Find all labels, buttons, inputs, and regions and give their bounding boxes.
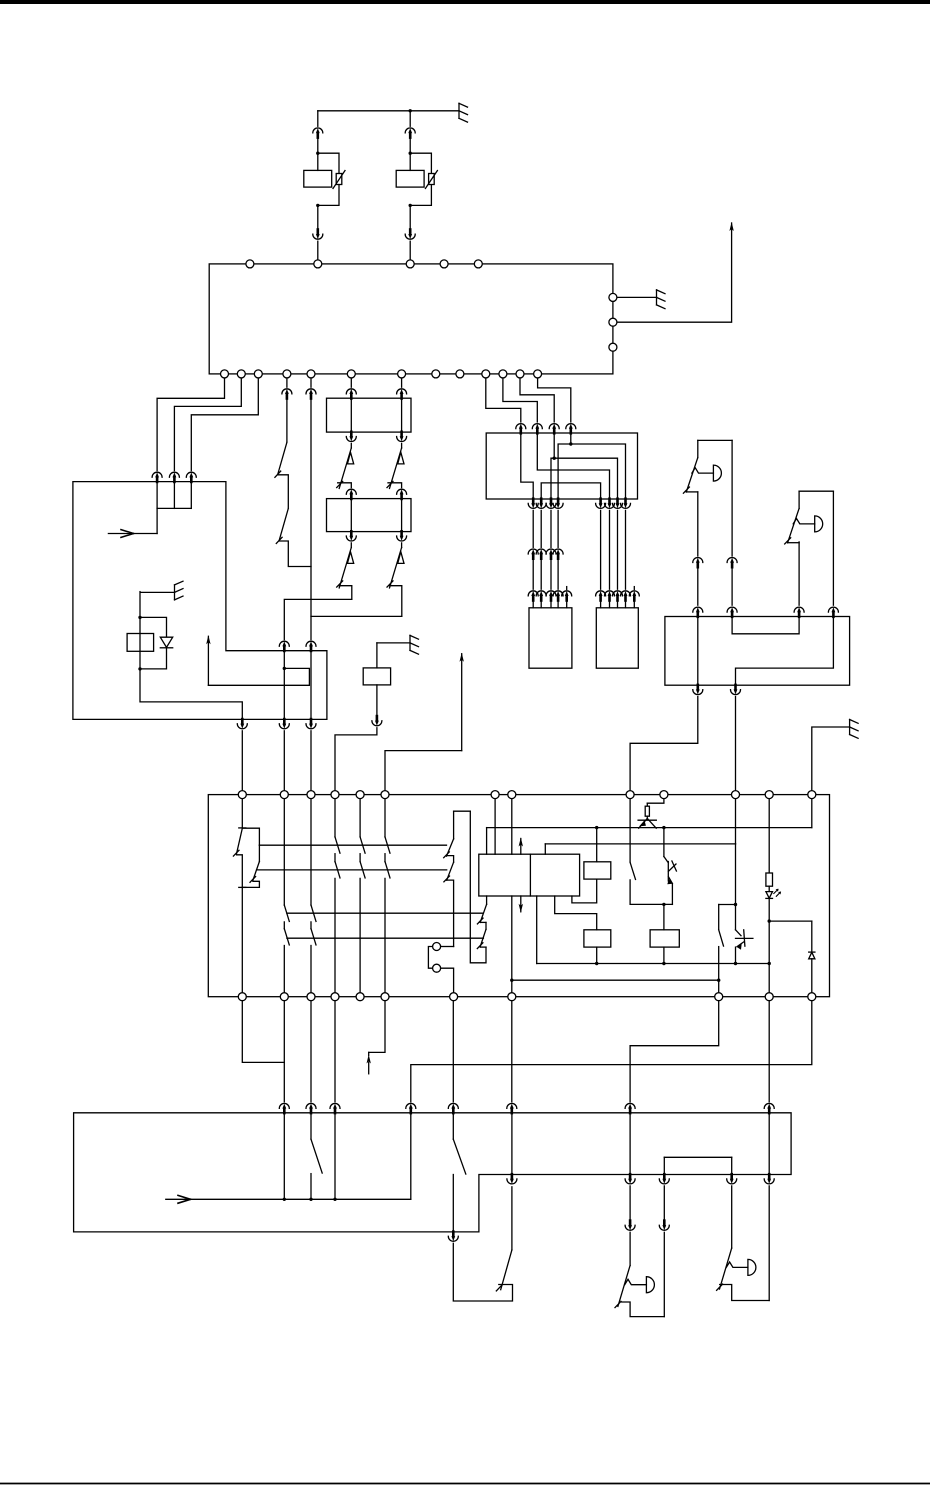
- wire w311 top: [310, 374, 312, 387]
- page top bar: [0, 0, 930, 4]
- wire f1: [486, 374, 521, 422]
- wire b3: [310, 997, 312, 1102]
- node bus2: [309, 1198, 312, 1201]
- wire M2 top lead: [409, 111, 411, 127]
- terminal box4-top x495.1: [491, 791, 499, 799]
- connector box5 in3: [330, 1103, 340, 1113]
- PCB driver board U2: [208, 795, 829, 997]
- wire boxA to rail963: [536, 896, 538, 964]
- arrow feed out: [731, 223, 733, 230]
- terminal box1-right y322.2: [609, 318, 617, 326]
- wire K4 step b: [481, 946, 486, 948]
- connector box5 out0: [448, 1232, 458, 1242]
- connector boxF in4: [566, 424, 576, 434]
- wire harnessL x558.1 a: [557, 510, 559, 547]
- ground G2: [657, 290, 666, 309]
- terminal CN-A pin1: [433, 943, 441, 951]
- wire harnessL x541.2 c: [540, 600, 542, 608]
- wire 664 mid: [663, 1186, 665, 1221]
- wire K1 to box4: [241, 731, 243, 791]
- wire col335.0 upper: [334, 795, 336, 837]
- wire col284.3 upper: [283, 795, 285, 906]
- terminal box1-bottom x520.0: [516, 370, 524, 378]
- node boxD top: [662, 903, 665, 906]
- wire col385.0 mid: [384, 854, 386, 862]
- contact K3 tick b: [444, 876, 450, 882]
- switch S1 blade: [278, 442, 287, 474]
- wire harnessL x551.0 b: [550, 558, 552, 589]
- switch S6 blade: [453, 1139, 466, 1174]
- wire col284.3 mid: [283, 922, 285, 929]
- wire Q1 resistor lead: [646, 803, 648, 806]
- terminal box1-top x317.8: [314, 260, 322, 268]
- wire col311.0 upper: [310, 795, 312, 906]
- wire sw-chain top: [286, 374, 288, 387]
- wire F pin4 route: [570, 433, 572, 444]
- wire U1 right leg: [731, 440, 733, 556]
- node w284 tap: [283, 667, 286, 670]
- connector w311 out: [306, 719, 316, 729]
- switch S2 blade: [279, 509, 288, 541]
- connector left-box pin3: [186, 472, 196, 482]
- connector SB1 in x541.2: [536, 591, 546, 601]
- wire box5 bus: [166, 1198, 411, 1200]
- arrow input: [121, 530, 134, 538]
- wire LED chain lower: [768, 921, 770, 997]
- relay coil C: [584, 930, 611, 947]
- wire bridge left: [663, 1157, 665, 1174]
- wire col335.0 lower: [334, 878, 336, 996]
- node M1 bottom junction: [316, 204, 319, 207]
- wire TH1 contact: [338, 483, 352, 488]
- connector U1 left: [693, 558, 703, 568]
- contact col284.3 blade b: [284, 929, 289, 945]
- node rail963 end: [768, 962, 771, 965]
- wire bus drop3: [334, 1113, 336, 1200]
- wire box3 pass R: [401, 499, 403, 532]
- resistor R2: [766, 873, 773, 886]
- switch U2 tick: [785, 538, 791, 544]
- connector box3 out R: [397, 531, 407, 541]
- wire b1 jog: [242, 997, 284, 1063]
- wire w311 lower: [310, 651, 312, 720]
- wire h2 top: [401, 374, 403, 387]
- wire L2 bottom: [720, 1285, 770, 1301]
- terminal box4-bottom x811.8: [808, 993, 816, 1001]
- wire Q1 base lead: [646, 816, 648, 818]
- switch S7 tick: [496, 1285, 502, 1291]
- connector SB1 stub: [566, 587, 568, 590]
- wire Q1 bent lead: [647, 799, 664, 804]
- wire harnessL x558.1 c: [557, 600, 559, 608]
- wire sw6 link: [452, 1175, 454, 1232]
- wire 769 tail: [768, 1186, 770, 1301]
- terminal box4-top x630.1: [626, 791, 634, 799]
- terminal box1-bottom x351.3: [347, 370, 355, 378]
- connector F out-right x625.5: [621, 499, 631, 509]
- connector K1 out: [237, 719, 247, 729]
- connector boxW in2: [727, 607, 737, 617]
- terminal box4-top x735.5: [732, 791, 740, 799]
- transistor Q1 base bar: [638, 819, 656, 821]
- wire rail963: [537, 963, 770, 965]
- wire 630 mid: [629, 1186, 631, 1221]
- wire box3 pass L: [350, 499, 352, 532]
- lamp U1: [713, 465, 721, 481]
- connector SB2 in x625.5: [621, 591, 631, 601]
- wire U2 top edge: [799, 490, 833, 492]
- wire col284.3 lower: [283, 946, 285, 997]
- connector boxW in4: [828, 607, 838, 617]
- node F pin3: [553, 457, 556, 460]
- node LED tap: [768, 919, 771, 922]
- connector SB2 in x617.5: [613, 591, 623, 601]
- wire SB1 stub lead: [566, 600, 568, 608]
- wire rail980 feed: [511, 896, 513, 997]
- connector box2 in R: [397, 389, 407, 399]
- connector U1 right: [727, 558, 737, 568]
- wire U1 left tail: [697, 567, 699, 605]
- wire LED out: [768, 898, 770, 921]
- switch U1 plunger: [692, 468, 714, 473]
- switch L2 plunger: [726, 1262, 748, 1267]
- switch S7 blade: [501, 1250, 512, 1290]
- wire w284 to box4: [283, 731, 285, 791]
- contact col360.1 blade b: [360, 862, 365, 878]
- contact K3 blade b: [447, 862, 454, 880]
- wire boxA to boxC: [555, 896, 597, 930]
- connector SB1 stub pin: [562, 591, 572, 601]
- wire U1 left stem: [697, 440, 699, 457]
- node M2 bottom junction: [409, 204, 412, 207]
- terminal box1-bottom x311.0: [307, 370, 315, 378]
- thermal switch TH2 sensor: [398, 452, 404, 464]
- node rail963 boxD: [662, 962, 665, 965]
- connector F out-left x541.2: [536, 499, 546, 509]
- contact RY1 blade a: [236, 828, 242, 854]
- wire h1 top: [350, 374, 352, 387]
- wire W bridge12: [732, 617, 799, 634]
- wire U1 left lower: [697, 492, 699, 556]
- connector SB2 in x609.5: [605, 591, 615, 601]
- terminal box1-top x444.1: [440, 260, 448, 268]
- wire U2 right leg: [832, 491, 834, 605]
- contact RY1 tick a: [233, 850, 239, 856]
- wire inside pin2: [173, 482, 175, 509]
- switch S3 blade: [630, 862, 635, 879]
- connector w311 mid: [306, 641, 316, 651]
- page bottom rule: [0, 1483, 930, 1485]
- connector box5 in8: [406, 1103, 416, 1113]
- connector box5 in4: [448, 1103, 458, 1113]
- diode D1: [160, 637, 172, 647]
- connector boxW in3: [794, 607, 804, 617]
- wire T3 feed: [735, 844, 737, 930]
- wire harnessL x533.2 c: [532, 600, 534, 608]
- wire diode branch: [140, 617, 167, 637]
- connector W out2: [731, 685, 741, 695]
- operation unit box5: [74, 1113, 792, 1232]
- connector F out-left x558.1: [553, 499, 563, 509]
- connector SB2 stub: [633, 587, 635, 590]
- node Q1 collector: [662, 826, 665, 829]
- ground G5: [850, 720, 859, 739]
- wire col311.0 mid: [310, 922, 312, 929]
- connector M2 upper: [405, 128, 415, 138]
- LED D2: [766, 892, 773, 899]
- wire input line: [108, 533, 157, 535]
- switch S4 blade: [719, 930, 724, 946]
- wire harnessL x558.1 b: [557, 558, 559, 589]
- wire loop right: [470, 811, 486, 963]
- relay coil D: [650, 930, 679, 947]
- wire harnessL x533.2 b: [532, 558, 534, 589]
- wire col360.1 upper: [359, 795, 361, 837]
- terminal box4-top x335.0: [331, 791, 339, 799]
- node rail963 T3: [734, 962, 737, 965]
- wire S4 stem: [718, 905, 720, 930]
- wire thermal-right link: [311, 616, 402, 639]
- terminal box4-bottom x284.3: [280, 993, 288, 1001]
- wire b5 tail: [368, 1063, 370, 1074]
- connector SB1 in x551.0: [546, 591, 556, 601]
- connector box2 in L: [346, 389, 356, 399]
- arrow A1: [207, 636, 209, 685]
- thermal switch TH4 blade: [390, 548, 402, 588]
- wire S2 contact: [279, 541, 311, 567]
- wire box2 pass R: [401, 398, 403, 432]
- terminal box1-bottom x401.6: [398, 370, 406, 378]
- wire col385.0 upper: [384, 795, 386, 837]
- thermal switch TH3 blade: [339, 548, 351, 588]
- wire A2 link: [385, 751, 462, 791]
- connector box3 in L: [346, 489, 356, 499]
- motor box SB2: [596, 608, 638, 668]
- wire M1 to coil: [317, 137, 319, 170]
- wire thermal-left link: [284, 599, 352, 639]
- terminal box1-bottom x537.6: [534, 370, 542, 378]
- transistor Q1 collector: [647, 818, 656, 828]
- arrow b5: [368, 1052, 370, 1055]
- switch U1 tick: [683, 487, 689, 493]
- connector harnessL mid x533.2: [528, 549, 538, 559]
- wire U1 top edge: [698, 439, 732, 441]
- connector SB1 in x533.2: [528, 591, 538, 601]
- node rail828 boxB: [595, 826, 598, 829]
- connector left-box pin2: [169, 472, 179, 482]
- wire S1 contact: [278, 475, 289, 508]
- wire f3: [520, 374, 554, 422]
- wire L1 bottom: [622, 1302, 665, 1317]
- wire b4: [334, 997, 336, 1102]
- wire rail828 left elbow: [486, 828, 488, 855]
- wire sw-chain: [286, 398, 288, 442]
- wire D3 out: [811, 959, 813, 997]
- wire bus drop1: [283, 1113, 285, 1200]
- node bus1: [283, 1198, 286, 1201]
- terminal box4-top x811.8: [808, 791, 816, 799]
- wire W out1 to box4: [630, 697, 698, 791]
- arrow boxA up: [520, 839, 522, 855]
- terminal box4-bottom x360.1: [356, 993, 364, 1001]
- wire rail828 right elbow: [811, 795, 813, 828]
- terminal box4-top x284.3: [280, 791, 288, 799]
- wire S3 out: [630, 880, 672, 905]
- wire K1 vertical: [139, 592, 141, 669]
- wire R2 feed: [768, 795, 770, 873]
- PCB main board U1: [209, 264, 613, 374]
- connector boxW in1: [693, 607, 703, 617]
- wire RY1 nc path: [237, 855, 243, 888]
- wire TH4 contact: [390, 586, 402, 617]
- contact col360.1 blade a: [360, 837, 365, 853]
- connector boxF in2: [532, 424, 542, 434]
- wire w284 lower: [283, 651, 285, 720]
- junction box F: [486, 433, 637, 499]
- wire S4 out: [718, 947, 720, 997]
- contact K4 blade a: [480, 904, 486, 922]
- wire U-bridge: [664, 1156, 731, 1158]
- node K1 top: [138, 616, 141, 619]
- connector w311: [306, 389, 316, 399]
- terminal box1-bottom x241.3: [237, 370, 245, 378]
- wire K1 top: [140, 591, 174, 593]
- connector sw-chain: [282, 389, 292, 399]
- switch L1 tick: [615, 1301, 621, 1307]
- wire col360.1 mid: [359, 854, 361, 862]
- wire K4 mid: [485, 923, 487, 930]
- switch L2 tick: [717, 1284, 723, 1290]
- terminal box4-bottom x718.7: [715, 993, 723, 1001]
- transistor T2: [664, 857, 677, 884]
- wire inside pin1: [156, 482, 158, 509]
- thermal switch TH1 blade: [339, 448, 351, 488]
- node F pin4: [569, 442, 572, 445]
- connector inline 664: [659, 1221, 669, 1231]
- terminal box1-bottom x224.5: [221, 370, 229, 378]
- wire TH1 stem: [350, 443, 352, 448]
- arrow A2: [461, 654, 463, 751]
- wire SB2 stub lead: [633, 600, 635, 608]
- wire sw5 out: [310, 1174, 312, 1200]
- wire box1 feed out: [617, 229, 732, 322]
- contact col284.3 blade a: [284, 905, 289, 921]
- wire U2 left stem: [798, 491, 800, 508]
- switch L1 plunger: [625, 1279, 647, 1284]
- wire 630 tail: [629, 1232, 631, 1265]
- wire top bus: [318, 110, 459, 112]
- thermal switch TH3 tick: [337, 581, 343, 587]
- wire K2 to box4: [335, 728, 377, 791]
- terminal box1-right y347.2: [609, 343, 617, 351]
- wire b8 jog: [630, 997, 719, 1102]
- wire sw5 stem: [310, 1113, 312, 1139]
- wire w311 long: [310, 398, 312, 616]
- wire harnessL x551.0 a: [550, 510, 552, 547]
- wire K2 stem: [376, 643, 378, 668]
- terminal box4-top x769.2: [765, 791, 773, 799]
- node rail980 left: [510, 979, 513, 982]
- connector SB1 in x558.1: [553, 591, 563, 601]
- wire T3 emitter lead: [735, 947, 737, 963]
- terminal box4-top x663.9: [660, 791, 668, 799]
- wire D3 feed: [811, 921, 813, 952]
- wire rail844: [545, 843, 735, 845]
- wire loop left upper: [453, 811, 455, 839]
- wire CN-A right: [441, 946, 454, 948]
- wire RY1 link: [242, 881, 259, 887]
- node top-bus junction: [409, 109, 412, 112]
- terminal box1-right y297.4: [609, 293, 617, 301]
- terminal box4-top x242.3: [238, 791, 246, 799]
- heater box2: [327, 398, 412, 432]
- wire harnessR x600.6: [600, 510, 602, 589]
- wire drop 769: [768, 1113, 770, 1175]
- wire sw6 lower: [453, 1243, 512, 1301]
- contact K4 tick b: [477, 943, 483, 949]
- wire rail1: [259, 844, 446, 846]
- wire boxA in3: [511, 795, 513, 855]
- relay M1 coil: [304, 170, 332, 187]
- wire join bar: [157, 507, 191, 509]
- power unit box: [73, 482, 327, 720]
- terminal box4-top x511.8: [508, 791, 516, 799]
- node bus3: [333, 1198, 336, 1201]
- heater box3: [327, 499, 412, 532]
- wire W out2 to box4: [735, 697, 737, 791]
- wire harnessL x541.2 a: [540, 510, 542, 547]
- thermal switch TH4 sensor: [398, 552, 404, 564]
- wire TH3 stem: [350, 543, 352, 548]
- wire 731 tail: [731, 1186, 733, 1248]
- wire w311 to box4: [310, 731, 312, 791]
- relay K2 coil: [363, 668, 390, 685]
- IC box A: [479, 854, 580, 896]
- wire K2 top: [377, 642, 410, 644]
- wire drop 630: [629, 1113, 631, 1175]
- varistor M2: [429, 174, 435, 185]
- connector SB2 stub pin: [629, 591, 639, 601]
- wire b9: [768, 997, 770, 1102]
- terminal box1-bottom x435.8: [432, 370, 440, 378]
- wire box2 pass L: [350, 398, 352, 432]
- switch S5 blade: [311, 1139, 322, 1173]
- switch U2 blade: [788, 508, 800, 542]
- switch L1 blade: [618, 1265, 630, 1306]
- junction box W: [665, 617, 850, 686]
- terminal box1-bottom x459.9: [456, 370, 464, 378]
- wire U2 contact: [788, 542, 800, 544]
- node T3 base: [734, 903, 737, 906]
- terminal box1-bottom x502.9: [499, 370, 507, 378]
- wire T2 emitter lead: [671, 884, 673, 905]
- relay K1 coil: [127, 634, 154, 652]
- terminal box4-bottom x769.2: [765, 993, 773, 1001]
- wire M2 lower lead: [409, 205, 411, 229]
- contact K4 tick a: [477, 918, 483, 924]
- wire col311.0 lower: [310, 946, 312, 997]
- wire S3 feed: [629, 795, 631, 862]
- switch L2 blade: [720, 1248, 732, 1289]
- wire RY1 no path: [242, 828, 259, 845]
- ground G1: [459, 103, 468, 122]
- contact col385.0 blade b: [385, 862, 390, 878]
- wire F net4: [558, 444, 625, 499]
- wire boxB feed: [596, 828, 598, 862]
- wire G5 link: [812, 727, 850, 791]
- wire R2-LED: [768, 886, 770, 891]
- connector harnessL mid x551.0: [546, 549, 556, 559]
